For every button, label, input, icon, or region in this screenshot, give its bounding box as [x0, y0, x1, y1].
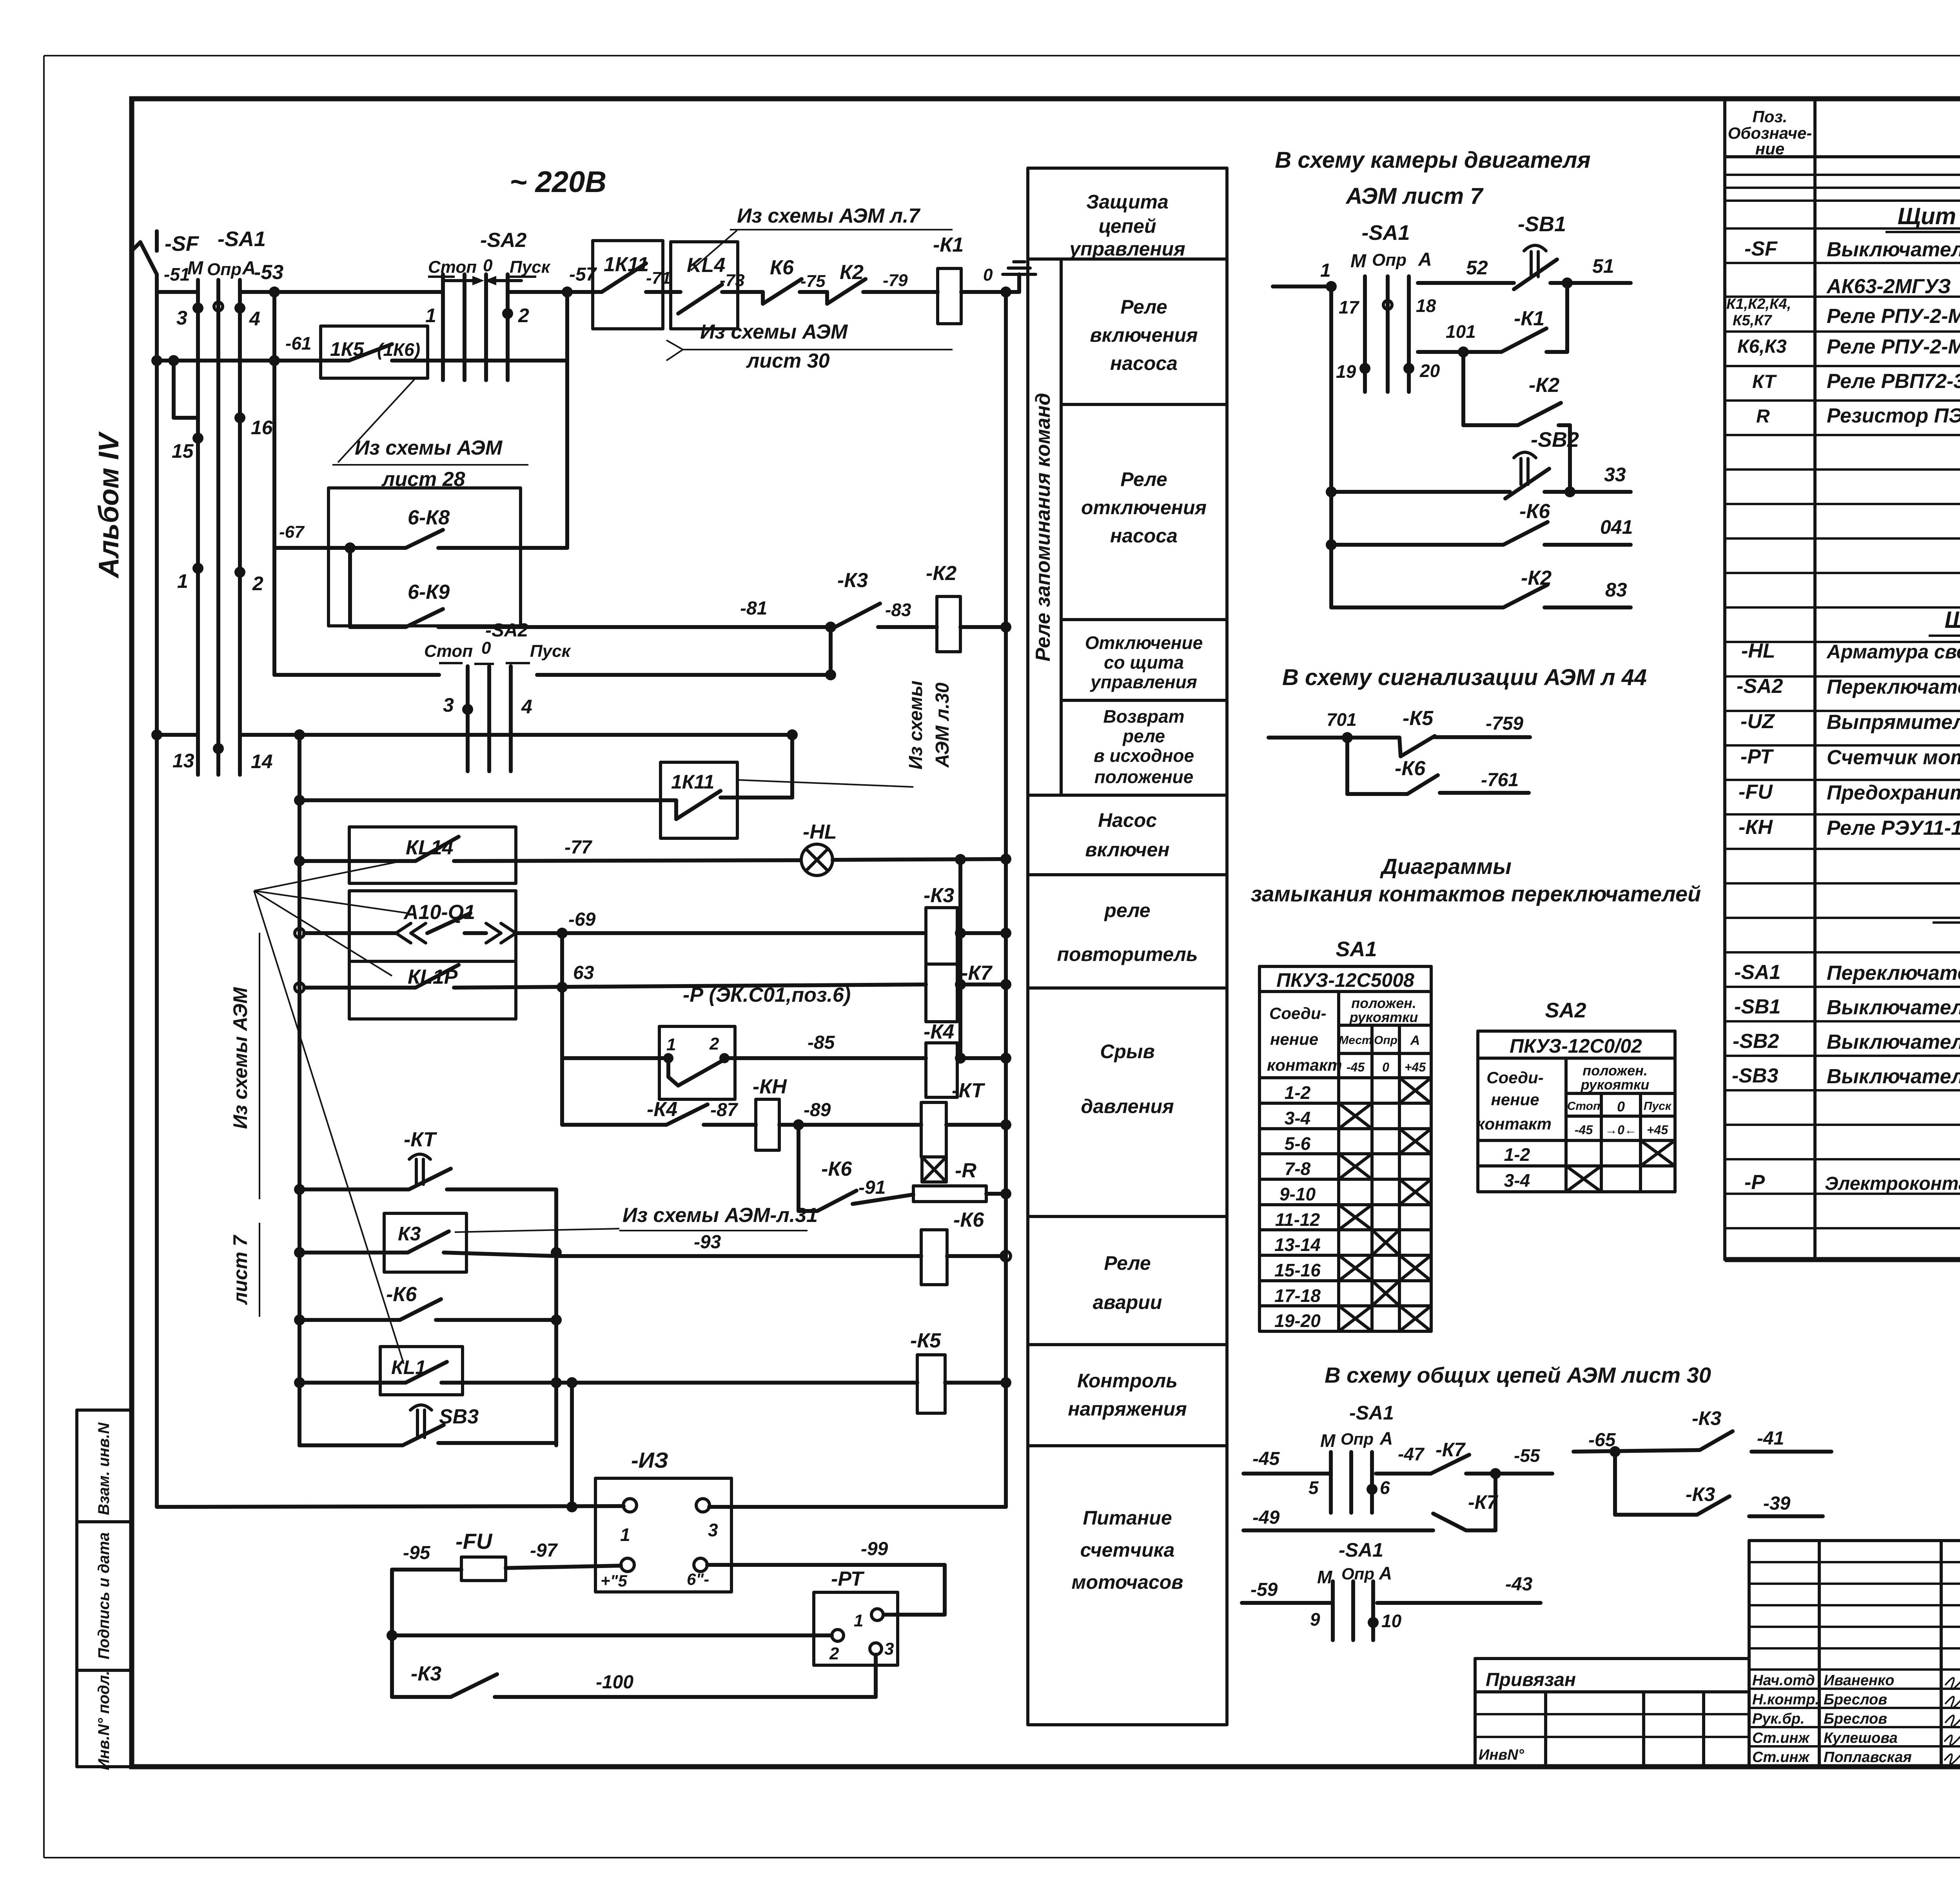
contact -K6 (sub ladder)	[294, 1283, 562, 1325]
svg-text:-К3: -К3	[837, 569, 868, 592]
svg-text:-К1: -К1	[1514, 307, 1544, 330]
svg-text:насоса: насоса	[1110, 525, 1178, 547]
svg-text:реле: реле	[1103, 899, 1150, 921]
svg-text:ИнвN°: ИнвN°	[1479, 1747, 1524, 1763]
svg-text:14: 14	[251, 750, 273, 772]
svg-text:-РТ: -РТ	[1740, 745, 1774, 768]
svg-text:М: М	[1317, 1567, 1333, 1587]
contact -K7 seal-in	[1376, 1439, 1552, 1530]
svg-text:Ст.инж: Ст.инж	[1752, 1730, 1810, 1746]
svg-text:Мест: Мест	[1339, 1034, 1372, 1047]
svg-text:R: R	[1756, 406, 1770, 427]
contact -K5	[1399, 707, 1530, 756]
svg-text:положен.: положен.	[1351, 995, 1416, 1011]
svg-text:Арматура светосигнальная АС 12: Арматура светосигнальная АС 12011У2	[1826, 641, 1960, 663]
svg-text:моточасов: моточасов	[1072, 1571, 1183, 1593]
svg-text:6-К9: 6-К9	[408, 581, 450, 604]
relay coil K4	[924, 1021, 1011, 1097]
svg-text:-SA1: -SA1	[1734, 961, 1780, 984]
svg-text:реле: реле	[1122, 726, 1165, 746]
svg-text:10: 10	[1381, 1611, 1402, 1631]
svg-text:отключения: отключения	[1081, 497, 1207, 518]
contact K6	[763, 256, 827, 304]
svg-text:-РТ: -РТ	[831, 1568, 865, 1590]
right bus of ladder	[1004, 292, 1008, 1507]
svg-text:-61: -61	[285, 333, 311, 353]
svg-text:Выпрямитель селеновый СВ24-ЗАУ: Выпрямитель селеновый СВ24-ЗАУХЛ4	[1827, 711, 1960, 734]
wire -51	[157, 264, 198, 292]
fragment -65/-41/-39	[1573, 1407, 1831, 1516]
relay coil K2	[926, 562, 1011, 652]
contact -K4	[562, 1098, 756, 1125]
svg-text:замыкания контактов переключ: замыкания контактов переключателей	[1251, 881, 1701, 906]
diagram table SA2	[1476, 999, 1675, 1192]
svg-text:ПКУЗ-12С5008: ПКУЗ-12С5008	[1276, 969, 1414, 991]
svg-text:нение: нение	[1270, 1030, 1318, 1048]
svg-text:Реле запоминания команд: Реле запоминания команд	[1032, 393, 1054, 661]
svg-text:Соеди-: Соеди-	[1269, 1004, 1326, 1022]
svg-text:В схему общих цепей АЭМ ли: В схему общих цепей АЭМ лист 30	[1325, 1363, 1711, 1387]
button -SB1	[1514, 212, 1631, 289]
contact K3 (boxed)	[294, 1213, 562, 1272]
diagram table SA1	[1259, 937, 1431, 1331]
svg-text:А10-Q1: А10-Q1	[403, 901, 475, 924]
switch SA2 (local)	[274, 620, 836, 771]
svg-text:3-4: 3-4	[1504, 1170, 1530, 1191]
svg-text:0: 0	[1617, 1099, 1625, 1115]
svg-text:-81: -81	[740, 598, 767, 619]
svg-text:КL14: КL14	[406, 836, 454, 859]
wire -53	[240, 261, 443, 297]
svg-text:Диаграммы: Диаграммы	[1380, 854, 1512, 879]
svg-text:-HL: -HL	[1741, 640, 1775, 662]
svg-text:Привязан: Привязан	[1486, 1670, 1576, 1690]
svg-text:В схему камеры двигателя: В схему камеры двигателя	[1275, 147, 1590, 173]
svg-text:13: 13	[172, 750, 194, 772]
svg-text:33: 33	[1604, 464, 1626, 486]
svg-text:рукоятки: рукоятки	[1581, 1077, 1650, 1093]
svg-text:Переключатель ПКУЗ-12С5008У2: Переключатель ПКУЗ-12С5008У2	[1827, 962, 1960, 984]
svg-text:Выключатель КЕ011УЗ исп.4: Выключатель КЕ011УЗ исп.4	[1827, 1031, 1960, 1053]
svg-text:Реле РПУ-2-М36220УЗБ: Реле РПУ-2-М36220УЗБ	[1827, 305, 1960, 328]
svg-text:13-14: 13-14	[1274, 1235, 1321, 1255]
contact 1K5 (1K6)	[321, 326, 567, 378]
svg-text:контакт: контакт	[1267, 1056, 1342, 1074]
svg-text:2: 2	[252, 573, 263, 595]
leader iz shemy AEM list 7 (rotated)	[229, 862, 408, 1364]
svg-text:-К5: -К5	[1403, 707, 1434, 730]
svg-text:-97: -97	[530, 1540, 558, 1561]
svg-text:-SB1: -SB1	[1734, 995, 1780, 1018]
svg-text:-SF: -SF	[165, 232, 200, 256]
svg-text:-К5: -К5	[910, 1329, 941, 1352]
wire to rectifier	[157, 1501, 624, 1512]
svg-text:АЭМ лист 7: АЭМ лист 7	[1345, 183, 1484, 209]
svg-text:А: А	[1379, 1428, 1393, 1448]
svg-text:-SB3: -SB3	[1732, 1064, 1779, 1087]
contact -KT timer	[294, 1128, 556, 1195]
svg-text:-К1: -К1	[933, 234, 964, 256]
svg-text:-SA2: -SA2	[485, 620, 528, 641]
svg-text:Выключатель КЕ011УЗ исп.4: Выключатель КЕ011УЗ исп.4	[1827, 1065, 1960, 1088]
svg-text:-69: -69	[568, 909, 596, 930]
leader from scheme AEM sheet 30	[666, 321, 953, 372]
switch -SA1 (common top)	[1243, 1402, 1394, 1513]
svg-text:-К3: -К3	[411, 1662, 441, 1685]
relay coil K5	[910, 1329, 1011, 1413]
svg-text:-100: -100	[596, 1672, 633, 1693]
svg-text:-R: -R	[955, 1159, 976, 1182]
contact -K6 (signal)	[1347, 738, 1438, 794]
svg-text:3: 3	[884, 1639, 894, 1659]
svg-text:9-10: 9-10	[1279, 1184, 1316, 1204]
contact KL14	[294, 827, 800, 883]
svg-text:-Р: -Р	[1744, 1171, 1765, 1194]
svg-text:1: 1	[1320, 260, 1331, 281]
svg-text:Стоп: Стоп	[428, 257, 477, 277]
svg-text:К3: К3	[398, 1223, 421, 1245]
svg-text:-SA1: -SA1	[1339, 1539, 1383, 1561]
parts list table	[1725, 99, 1960, 1260]
button -SB2	[1326, 428, 1631, 499]
svg-text:-К6: -К6	[1519, 500, 1550, 523]
svg-text:Резистор ПЭВР-50: Резистор ПЭВР-50	[1827, 404, 1960, 427]
svg-text:Взам. инв.N: Взам. инв.N	[95, 1422, 113, 1515]
svg-text:2: 2	[518, 305, 529, 326]
svg-text:Из схемы АЭМ-л.31: Из схемы АЭМ-л.31	[622, 1204, 818, 1227]
svg-text:6: 6	[1380, 1477, 1390, 1498]
svg-text:М: М	[1350, 251, 1367, 272]
svg-text:-SA1: -SA1	[1361, 221, 1410, 245]
svg-text:Бреслов: Бреслов	[1824, 1711, 1887, 1727]
svg-text:-87: -87	[710, 1100, 739, 1120]
fuse FU	[392, 1529, 621, 1581]
svg-text:~ 220В: ~ 220В	[510, 165, 606, 199]
svg-text:Щит Щ2: Щит Щ2	[1945, 607, 1960, 633]
svg-text:Из схемы: Из схемы	[906, 680, 926, 769]
svg-text:Реле РЭУ11-110УЗ: Реле РЭУ11-110УЗ	[1827, 817, 1960, 839]
contact K3	[835, 569, 937, 627]
svg-text:лист 7: лист 7	[229, 1235, 251, 1305]
svg-text:-UZ: -UZ	[1740, 710, 1775, 733]
svg-text:+45: +45	[1405, 1060, 1426, 1074]
svg-text:Пуск: Пуск	[1644, 1100, 1672, 1113]
svg-text:давления: давления	[1081, 1095, 1174, 1117]
svg-text:-FU: -FU	[1739, 781, 1773, 803]
privyazan box	[1475, 1659, 1749, 1766]
svg-text:1-2: 1-2	[1285, 1082, 1311, 1103]
svg-text:-43: -43	[1505, 1574, 1533, 1595]
hour meter PT	[814, 1568, 898, 1665]
svg-text:аварии: аварии	[1093, 1291, 1162, 1313]
svg-text:счетчика: счетчика	[1080, 1539, 1175, 1561]
svg-text:701: 701	[1327, 709, 1357, 730]
function description column	[1028, 168, 1227, 1725]
svg-text:В схему сигнализации АЭМ л: В схему сигнализации АЭМ л 44	[1282, 665, 1647, 690]
wire -67	[274, 522, 406, 553]
leader iz shemy AEM l.30 (rotated)	[737, 680, 953, 787]
svg-text:1-2: 1-2	[1504, 1144, 1530, 1165]
relay coil K6	[921, 1209, 1011, 1285]
svg-text:-93: -93	[694, 1232, 721, 1253]
svg-text:-К6: -К6	[953, 1209, 984, 1231]
svg-text:Реле РПУ-2-М36620УЗБ: Реле РПУ-2-М36620УЗБ	[1827, 335, 1960, 358]
contact -K2 (second)	[1331, 567, 1631, 607]
svg-text:1: 1	[177, 570, 188, 592]
svg-text:управления: управления	[1068, 238, 1185, 260]
svg-text:-91: -91	[858, 1177, 886, 1198]
svg-text:-КН: -КН	[1739, 816, 1773, 839]
svg-text:КТ: КТ	[1752, 372, 1777, 392]
contact -K3 (bottom)	[392, 1662, 876, 1697]
wire -57	[508, 264, 602, 297]
svg-text:Бреслов: Бреслов	[1824, 1691, 1887, 1708]
table outline	[1723, 99, 1726, 1260]
wire -93	[556, 1232, 921, 1256]
svg-text:М: М	[1320, 1430, 1336, 1451]
lamp -HL	[801, 821, 1011, 876]
svg-text:цепей: цепей	[1098, 215, 1156, 237]
svg-text:-КН: -КН	[753, 1075, 787, 1098]
svg-text:15: 15	[172, 440, 194, 462]
svg-text:2: 2	[709, 1034, 719, 1053]
svg-text:контакт: контакт	[1476, 1115, 1552, 1133]
svg-text:1: 1	[620, 1525, 630, 1545]
svg-text:АК63-2МГУЗ: АК63-2МГУЗ	[1826, 275, 1951, 298]
svg-text:9: 9	[1310, 1609, 1320, 1630]
contact KL1	[294, 1347, 917, 1395]
svg-text:положен.: положен.	[1583, 1062, 1648, 1079]
svg-text:Насос: Насос	[1098, 809, 1157, 831]
svg-text:ПКУЗ-12С0/02: ПКУЗ-12С0/02	[1510, 1035, 1642, 1057]
rectifier UZ	[595, 1448, 731, 1592]
svg-text:4: 4	[521, 696, 532, 718]
svg-text:Рук.бр.: Рук.бр.	[1752, 1711, 1805, 1727]
svg-text:3: 3	[708, 1520, 718, 1540]
svg-text:Реле РВП72-3121-00УХЛ4: Реле РВП72-3121-00УХЛ4	[1827, 370, 1960, 393]
svg-text:20: 20	[1419, 361, 1440, 381]
svg-text:15-16: 15-16	[1274, 1260, 1321, 1280]
svg-text:-77: -77	[564, 837, 593, 858]
svg-text:АЭМ л.30: АЭМ л.30	[932, 682, 953, 768]
svg-text:рукоятки: рукоятки	[1349, 1009, 1418, 1025]
svg-text:Срыв: Срыв	[1100, 1041, 1155, 1062]
svg-text:в исходное: в исходное	[1094, 745, 1194, 766]
left bus (motor circuit)	[1329, 286, 1333, 607]
svg-text:А: А	[1379, 1563, 1392, 1583]
contact KL1P	[295, 961, 926, 1019]
svg-text:3: 3	[176, 307, 187, 329]
svg-text:Опр: Опр	[1374, 1034, 1397, 1047]
svg-text:Из схемы АЭМ л.7: Из схемы АЭМ л.7	[737, 205, 920, 227]
svg-text:Реле: Реле	[1120, 296, 1167, 318]
ground	[1000, 262, 1036, 297]
svg-text:-К6: -К6	[821, 1158, 852, 1180]
svg-text:Опр: Опр	[207, 260, 241, 279]
svg-text:0: 0	[481, 638, 491, 658]
svg-text:Н.контр.: Н.контр.	[1752, 1691, 1819, 1708]
svg-text:→0←: →0←	[1605, 1123, 1637, 1137]
svg-text:19: 19	[1336, 361, 1356, 382]
sub ladder rails	[554, 1189, 558, 1445]
contact -K6	[1326, 500, 1631, 550]
svg-text:18: 18	[1416, 295, 1436, 316]
svg-text:-41: -41	[1757, 1428, 1784, 1449]
svg-text:управления: управления	[1090, 672, 1197, 692]
svg-text:-FU: -FU	[456, 1529, 493, 1554]
svg-text:-759: -759	[1486, 713, 1523, 734]
svg-text:Соеди-: Соеди-	[1486, 1068, 1543, 1087]
svg-text:16: 16	[251, 417, 273, 439]
svg-text:-55: -55	[1514, 1445, 1541, 1466]
svg-text:101: 101	[1446, 321, 1476, 342]
svg-text:К1,К2,К4,: К1,К2,К4,	[1726, 296, 1791, 312]
svg-text:SA1: SA1	[1336, 937, 1377, 961]
svg-text:0: 0	[1382, 1060, 1389, 1074]
svg-text:-67: -67	[279, 522, 305, 542]
svg-text:-К7: -К7	[961, 962, 993, 984]
svg-text:-К4: -К4	[647, 1098, 677, 1121]
wire 52	[1418, 257, 1514, 283]
svg-text:Кулешова: Кулешова	[1824, 1730, 1898, 1746]
svg-text:положение: положение	[1094, 767, 1194, 787]
svg-text:-К3: -К3	[1692, 1407, 1721, 1429]
contact 1K11	[593, 241, 671, 329]
wire from PT pin3	[874, 1655, 878, 1697]
svg-text:Защита: Защита	[1086, 191, 1169, 213]
vertical node link	[829, 627, 833, 675]
svg-text:17-18: 17-18	[1274, 1285, 1321, 1306]
svg-text:-99: -99	[861, 1539, 888, 1559]
svg-text:-53: -53	[254, 261, 283, 284]
svg-text:-HL: -HL	[803, 821, 837, 843]
svg-text:включения: включения	[1090, 324, 1198, 346]
svg-text:+45: +45	[1647, 1123, 1668, 1137]
relay coil K7	[926, 962, 1011, 1022]
svg-text:Поплавская: Поплавская	[1824, 1749, 1912, 1766]
svg-text:Опр: Опр	[1341, 1430, 1374, 1448]
svg-text:-59: -59	[1250, 1579, 1278, 1600]
wire 13-14 row	[151, 729, 798, 740]
svg-text:-85: -85	[808, 1032, 835, 1053]
svg-text:-39: -39	[1763, 1493, 1791, 1514]
svg-text:-89: -89	[804, 1100, 831, 1120]
contact 6-K9	[350, 548, 835, 627]
svg-text:0: 0	[983, 265, 993, 285]
svg-text:-45: -45	[1347, 1060, 1365, 1074]
svg-text:-83: -83	[885, 600, 911, 620]
svg-text:Ст.инж: Ст.инж	[1752, 1749, 1810, 1766]
svg-text:5-6: 5-6	[1285, 1133, 1311, 1154]
bus from -53 down	[272, 292, 276, 675]
wire -49	[1243, 1507, 1433, 1530]
left bus C	[298, 735, 301, 1445]
svg-text:17: 17	[1339, 297, 1360, 317]
svg-text:6-К8: 6-К8	[408, 506, 450, 529]
svg-text:-SA1: -SA1	[218, 227, 266, 251]
svg-text:Отключение: Отключение	[1085, 633, 1203, 653]
svg-text:К5,К7: К5,К7	[1733, 312, 1772, 329]
svg-text:Нач.отд: Нач.отд	[1752, 1672, 1815, 1689]
contact 6-K8	[328, 361, 567, 626]
left margin stamp cells	[77, 1410, 132, 1770]
svg-text:-SA1: -SA1	[1349, 1402, 1394, 1424]
svg-text:-КТ: -КТ	[404, 1128, 437, 1151]
svg-text:7-8: 7-8	[1285, 1158, 1311, 1179]
svg-text:-ИЗ: -ИЗ	[631, 1448, 668, 1472]
contact KL4	[671, 242, 763, 329]
svg-text:SA2: SA2	[1545, 999, 1586, 1022]
svg-text:-К2: -К2	[926, 562, 956, 585]
link bus (right)	[958, 859, 962, 1058]
svg-text:-К7: -К7	[1468, 1491, 1498, 1513]
svg-text:1К11: 1К11	[671, 771, 714, 793]
contact -K2	[1463, 352, 1570, 492]
contact A10-Q1	[295, 891, 925, 961]
svg-text:-SB1: -SB1	[1518, 212, 1566, 236]
svg-text:041: 041	[1600, 516, 1633, 538]
svg-text:-45: -45	[1252, 1448, 1280, 1469]
svg-text:К6: К6	[770, 256, 794, 279]
svg-text:51: 51	[1592, 255, 1614, 277]
svg-text:Предохранитель ПН-50: Предохранитель ПН-50	[1827, 781, 1960, 804]
svg-text:2: 2	[829, 1644, 839, 1663]
svg-text:нение: нение	[1491, 1090, 1539, 1109]
svg-text:Альбом IV: Альбом IV	[93, 431, 125, 578]
svg-text:А: А	[1410, 1033, 1420, 1048]
svg-text:Реле: Реле	[1104, 1252, 1151, 1274]
svg-text:-79: -79	[883, 271, 908, 290]
svg-text:Поз.: Поз.	[1753, 107, 1788, 126]
svg-text:-95: -95	[403, 1543, 431, 1563]
contact K2	[827, 261, 938, 304]
resistor R	[913, 1186, 1011, 1202]
svg-text:К6,К3: К6,К3	[1737, 336, 1787, 357]
svg-text:-КТ: -КТ	[952, 1079, 985, 1102]
svg-text:83: 83	[1605, 579, 1627, 601]
svg-text:52: 52	[1466, 257, 1488, 279]
relay coil K1	[933, 234, 1006, 324]
svg-text:-49: -49	[1252, 1507, 1280, 1528]
svg-text:Счетчик моточасов 22ВЧП: Счетчик моточасов 22ВЧП	[1827, 746, 1960, 769]
svg-text:повторитель: повторитель	[1057, 943, 1198, 965]
svg-text:1: 1	[854, 1611, 863, 1630]
svg-text:Щит Щ1: Щит Щ1	[1898, 203, 1960, 229]
svg-text:-К6: -К6	[386, 1283, 417, 1306]
svg-text:6"-: 6"-	[687, 1570, 709, 1588]
svg-text:Стоп: Стоп	[1567, 1100, 1601, 1113]
svg-text:Из схемы АЭМ: Из схемы АЭМ	[700, 321, 848, 343]
svg-text:-761: -761	[1481, 770, 1519, 790]
svg-text:1: 1	[425, 305, 436, 326]
svg-text:Инв.N° подл.: Инв.N° подл.	[95, 1671, 113, 1770]
svg-text:11-12: 11-12	[1275, 1209, 1320, 1230]
wire -761	[1440, 770, 1529, 793]
svg-text:-73: -73	[720, 271, 745, 290]
svg-text:-47: -47	[1398, 1444, 1425, 1464]
svg-text:-SB2: -SB2	[1733, 1030, 1779, 1053]
signature grid	[1749, 1541, 1960, 1766]
wire -85	[724, 1032, 926, 1058]
leader from scheme AEM sheet 7 (top)	[691, 205, 953, 270]
table row rules	[1725, 175, 1960, 1228]
switch -SA1 (common bottom)	[1242, 1539, 1541, 1640]
svg-text:насоса: насоса	[1110, 352, 1178, 374]
svg-text:Выключатель автоматический: Выключатель автоматический	[1827, 238, 1960, 261]
svg-text:Выключатель КЕ011УЗ исп.4: Выключатель КЕ011УЗ исп.4	[1827, 996, 1960, 1019]
contact -K1	[1418, 283, 1567, 357]
leader from scheme AEM sheet 28	[332, 378, 528, 491]
